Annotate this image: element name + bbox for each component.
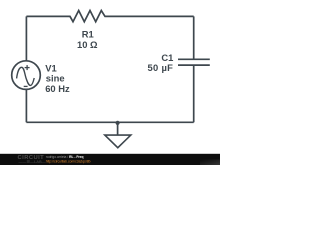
svg-text:60 Hz: 60 Hz <box>45 83 70 94</box>
svg-text:R1: R1 <box>82 28 94 39</box>
svg-text:http://circuitlab.com/c3a2qsr8: http://circuitlab.com/c3a2qsr8b <box>46 159 91 163</box>
svg-text:50 µF: 50 µF <box>148 62 174 73</box>
svg-text:sine: sine <box>46 73 65 84</box>
svg-text:10 Ω: 10 Ω <box>77 39 98 50</box>
svg-text:——☰—LAB—: ——☰—LAB— <box>19 159 46 164</box>
